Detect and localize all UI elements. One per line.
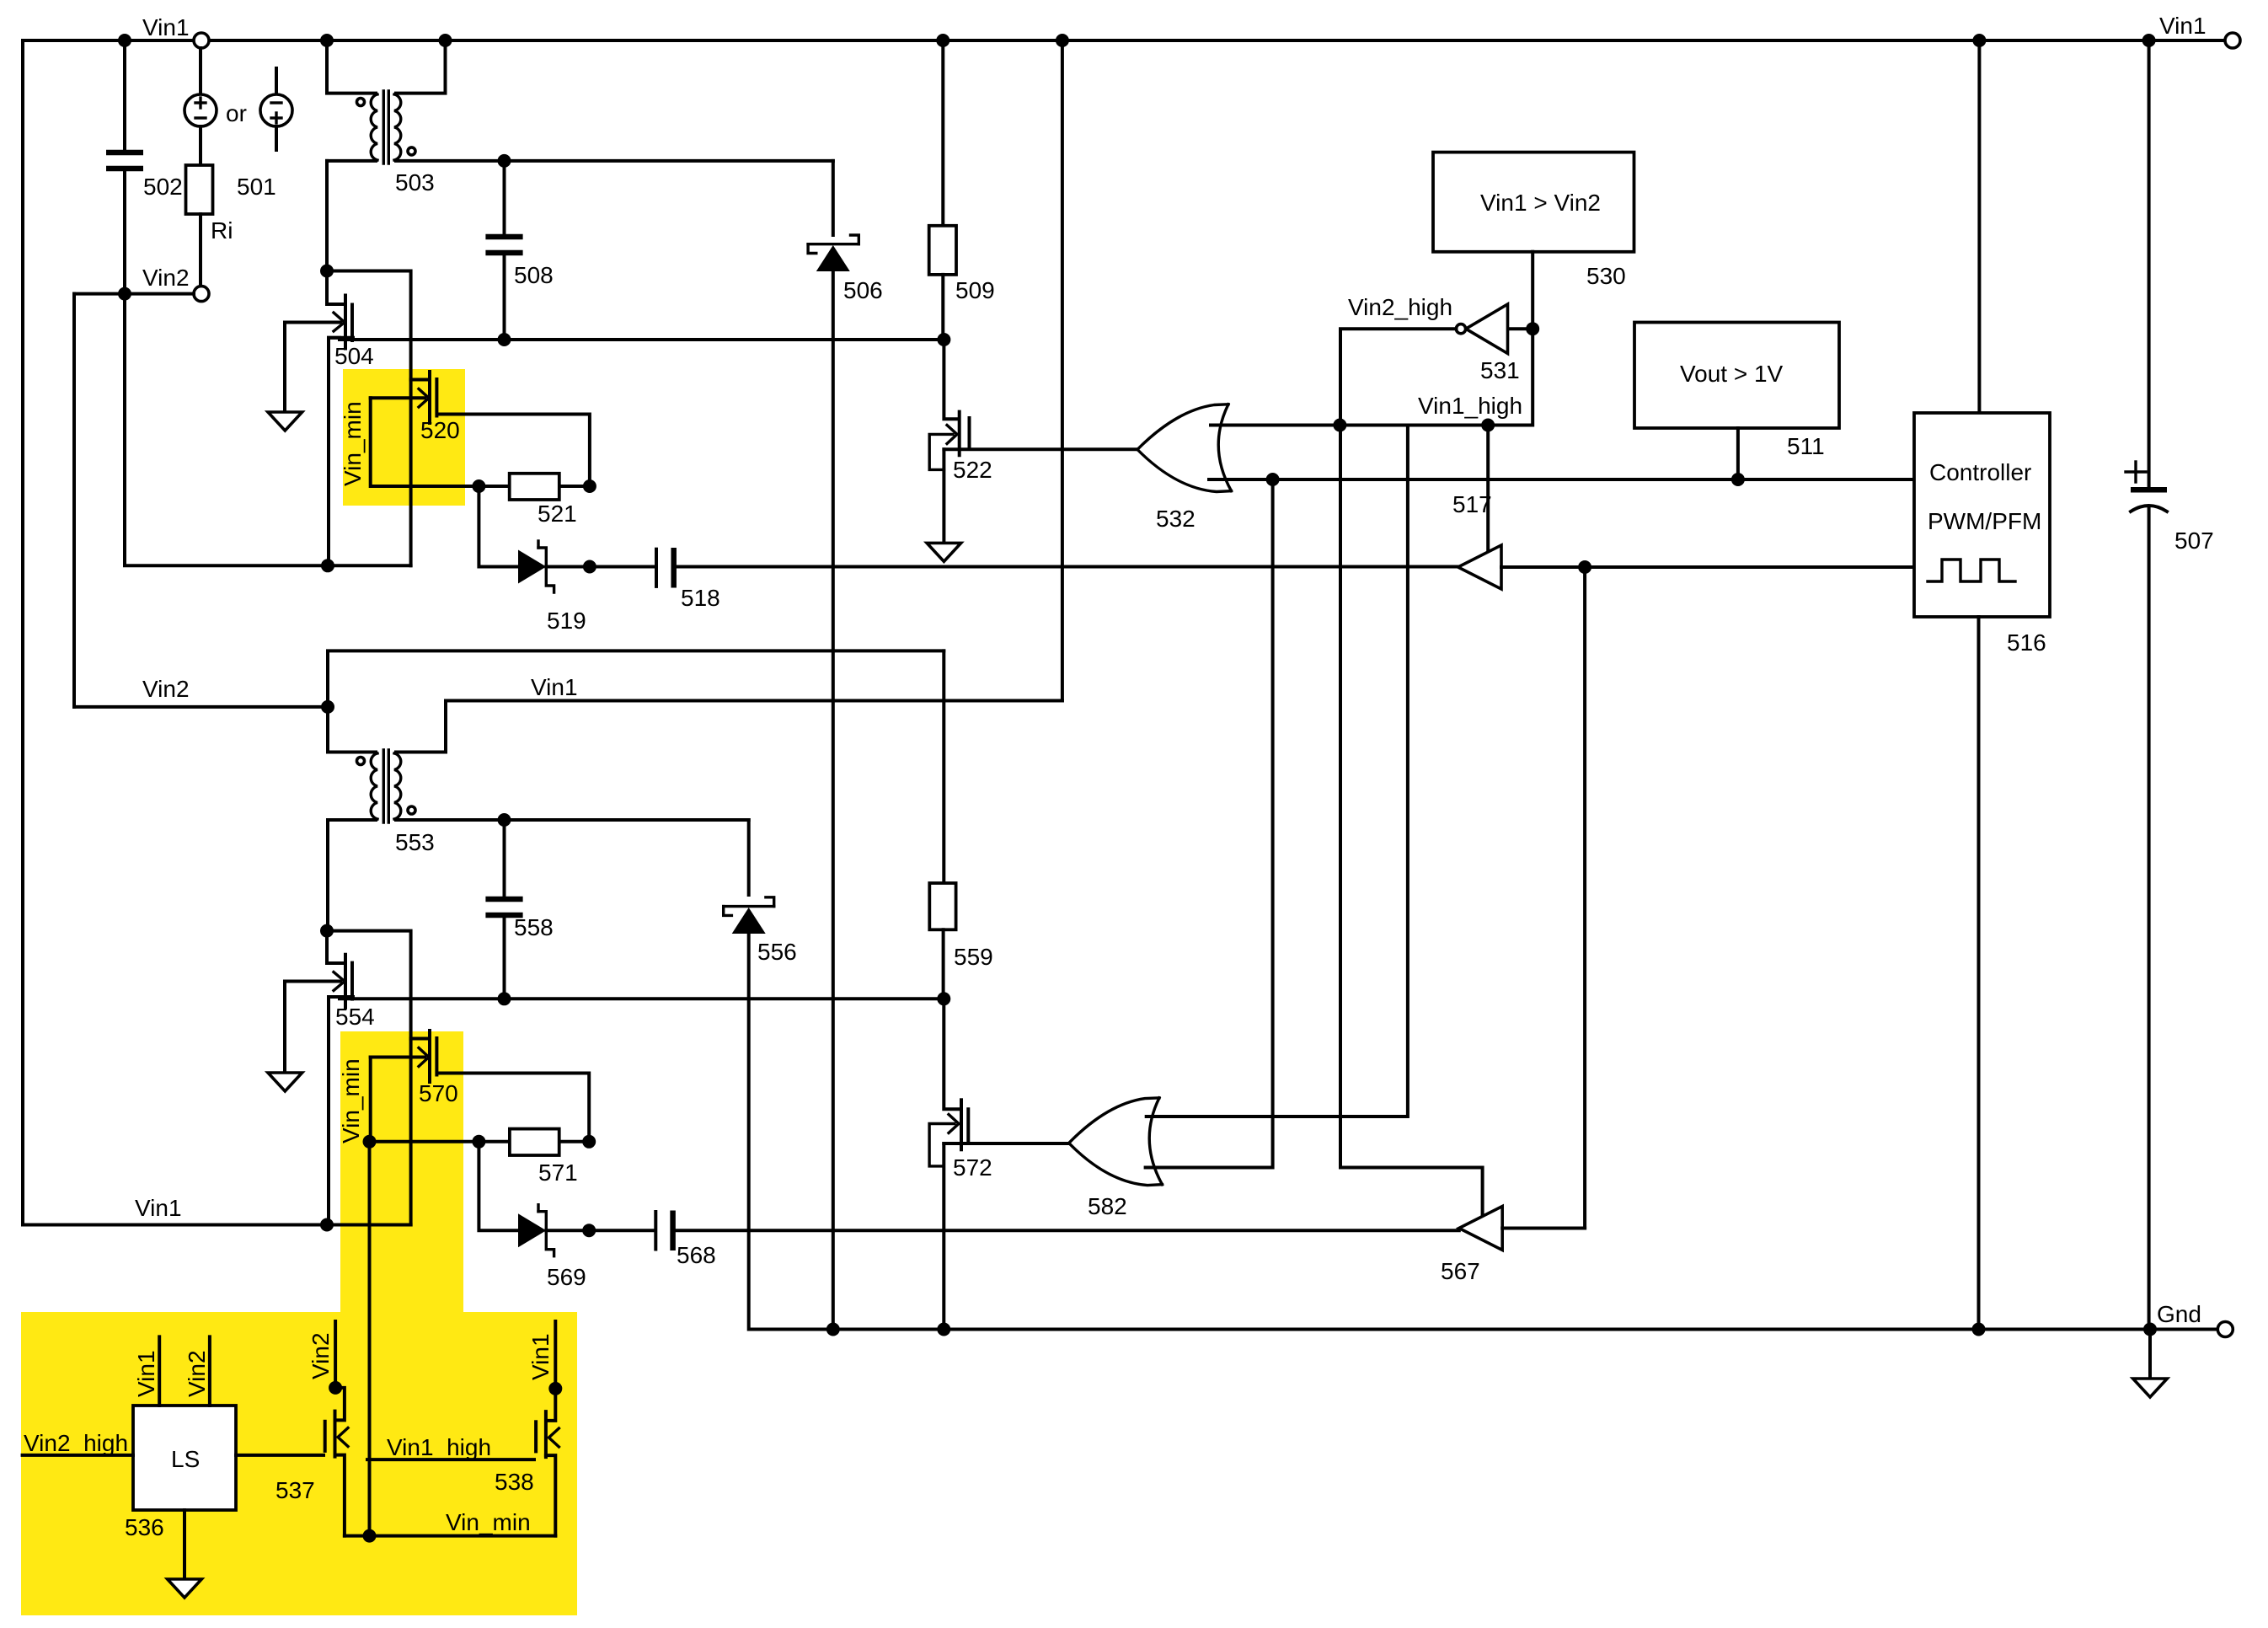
wire: 554 source long horizontal to 572 column (329, 997, 944, 999)
wire: Vin1_high vertical down to OR 582 upper input (1147, 426, 1408, 1117)
svg-text:519: 519 (547, 608, 586, 634)
wire: top Vin1 rail (23, 39, 194, 42)
comparator box 530 Vin1 > Vin2 (1433, 153, 1634, 252)
junction at Vin2 node (118, 287, 131, 301)
svg-text:Vin1_high: Vin1_high (387, 1434, 491, 1460)
wire: 522 node to OR 532 output (944, 447, 1137, 451)
svg-text:Vin1: Vin1 (2159, 13, 2206, 39)
svg-text:569: 569 (547, 1264, 586, 1290)
transformer 503 (327, 40, 376, 94)
wire: 570 source to right column (437, 1074, 589, 1142)
wire: Vin2 node up and over to resistor 559 column (328, 651, 944, 707)
junction 537 drain (329, 1381, 342, 1395)
wire: 530 bottom pin (1531, 252, 1534, 329)
voltage source 501 (left) (199, 48, 202, 94)
svg-text:Vin_min: Vin_min (338, 1058, 364, 1143)
zener diode 556 (747, 820, 751, 895)
svg-text:521: 521 (538, 501, 577, 527)
wire: 538 gate Vin1_high (367, 1458, 534, 1461)
wire: 1510 vertical down to OR 582 lower input (1146, 479, 1273, 1168)
wire: left edge vertical from Vin1 rail down to bottom Vin1 line (21, 40, 24, 1225)
wire: LS ground pin (183, 1510, 186, 1579)
capacitor 518 (655, 549, 658, 586)
wire: Vin2_high input to LS (23, 1454, 133, 1457)
junction Vout comparator line / vertical 1510 (1266, 473, 1280, 486)
transistor 554 (327, 931, 345, 963)
junction 511 pin on line (1731, 473, 1745, 486)
highlight block around LS level shifter 536/537/538 (21, 1312, 577, 1615)
junction on bottom Vin1 rail (554 source) (320, 1218, 334, 1232)
resistor 521 (510, 474, 559, 500)
svg-text:Vin_min: Vin_min (340, 401, 366, 486)
svg-text:LS: LS (171, 1446, 200, 1472)
junction cap 558 bottom on 554-source line (498, 992, 511, 1005)
junction 570 gate node (363, 1135, 377, 1149)
svg-text:516: 516 (2007, 629, 2046, 656)
inverter 531 (1508, 327, 1526, 330)
OR gate 532 (1137, 404, 1228, 450)
junction on lower rail (504 source) (321, 559, 334, 572)
svg-text:536: 536 (125, 1514, 164, 1540)
svg-text:Vin2_high: Vin2_high (1348, 294, 1452, 320)
diode 519 (zener) (518, 550, 546, 584)
svg-text:504: 504 (334, 343, 374, 369)
inverter 567 (1459, 1207, 1502, 1250)
wire: x=148 down to lower rail (125, 294, 411, 566)
wire: 519 cathode to cap 518 (546, 565, 655, 569)
wire: 504 source long horizontal to 522 column (329, 338, 944, 340)
junction diode/571 right column (582, 1224, 596, 1237)
junction diode/521 right column (583, 560, 596, 574)
transformer 553 (328, 707, 376, 752)
wire: 556 anode down to Gnd rail corner (747, 934, 752, 1330)
svg-text:517: 517 (1452, 491, 1492, 517)
junction cap 508 bottom on 504-source line (498, 333, 511, 346)
wire: 517 junction down to inverter 567 input (1502, 567, 1585, 1229)
svg-text:Controller: Controller (1929, 459, 2031, 485)
svg-text:568: 568 (677, 1242, 716, 1268)
wire: 538 drain from Vin1 stub (554, 1321, 557, 1389)
capacitor 568 (654, 1212, 657, 1250)
svg-text:554: 554 (335, 1004, 375, 1030)
svg-text:532: 532 (1156, 506, 1196, 532)
wire: 572 source down to Gnd rail (942, 1143, 945, 1330)
junction Gnd rail controller (1972, 1323, 1986, 1336)
junction 517 input line (1578, 560, 1591, 574)
wire: Vin1 mid horizontal (553 secondary top) (446, 699, 1062, 703)
transistor 522 (944, 340, 958, 419)
junction cap 508 top (498, 154, 511, 168)
ground at 554 gate (283, 982, 286, 1074)
zener diode 506 (808, 243, 859, 245)
highlight region around transistor 520 (343, 369, 465, 506)
terminal Vin1 top-left (194, 33, 209, 48)
svg-text:567: 567 (1441, 1258, 1480, 1284)
transistor 538 (547, 1389, 555, 1421)
wire Vin2 node horizontal (74, 292, 194, 296)
inverter 517 (1458, 545, 1501, 589)
wire: 559 column down across Vin1 line (942, 651, 945, 883)
junction 571 left (472, 1135, 485, 1149)
comparator box 511 Vout > 1V (1634, 323, 1839, 429)
junction 530 pin / 531 input (1526, 322, 1539, 335)
junction 559 bottom / 572 drain / 554 source line (937, 992, 950, 1005)
wire: Vin1 mid feed vertical (1061, 40, 1064, 701)
junction 538 drain (548, 1382, 562, 1395)
wire: 538 source down to Vin_min line (546, 1455, 555, 1536)
svg-text:503: 503 (395, 169, 435, 195)
svg-text:Vin1: Vin1 (135, 1195, 182, 1221)
junction Vin_min / 570 gate column (363, 1529, 377, 1543)
svg-text:Vin2: Vin2 (308, 1332, 334, 1379)
junction Vin2 / transformer 553 primary (321, 700, 334, 714)
transistor 520 (411, 378, 429, 382)
svg-text:553: 553 (395, 829, 435, 855)
junction 521 right (583, 479, 596, 493)
svg-text:570: 570 (419, 1080, 458, 1106)
wire: 572 node to OR 582 output (944, 1142, 1068, 1145)
wire: Vin2 down left branch (72, 294, 76, 707)
wire: 508 line right end down to zener 506 (832, 161, 835, 235)
wire: 511 bottom pin (1736, 428, 1740, 479)
svg-text:556: 556 (757, 939, 797, 965)
resistor Ri (199, 126, 202, 165)
svg-text:Vin1_high: Vin1_high (1418, 393, 1522, 419)
capacitor 507 (polarized) (2148, 40, 2151, 488)
svg-text:530: 530 (1586, 263, 1626, 289)
junction Gnd rail zener 556 (826, 1323, 840, 1336)
svg-text:582: 582 (1088, 1193, 1127, 1219)
wire: 517 line to controller (1585, 565, 1914, 569)
wire: LS Vin2 input pin (208, 1336, 211, 1406)
junction top rail cap 507 (2142, 34, 2156, 47)
wire: LS Vin1 input pin (158, 1336, 161, 1406)
junction Vin1_high tap (1481, 419, 1495, 432)
svg-text:537: 537 (275, 1477, 315, 1503)
wire: 522 source down to ground (942, 449, 945, 543)
Gnd rail (749, 1328, 2217, 1331)
junction Gnd rail 572 source (937, 1323, 950, 1336)
svg-text:Vin2_high: Vin2_high (24, 1430, 128, 1456)
ground at 504 gate (283, 323, 286, 413)
wire: 569 cathode to cap 568 (546, 1229, 654, 1232)
svg-text:520: 520 (420, 417, 460, 443)
wire: Vin2_high vertical down to bottom section (1340, 426, 1483, 1218)
svg-text:511: 511 (1787, 433, 1825, 459)
svg-text:Vin1 > Vin2: Vin1 > Vin2 (1480, 190, 1601, 216)
svg-text:Gnd: Gnd (2157, 1301, 2201, 1327)
wire: 506 anode down to Gnd rail (832, 271, 835, 1330)
resistor 509 (941, 40, 944, 226)
junction 571 right (582, 1135, 596, 1149)
junction 554 drain node (320, 924, 334, 938)
junction top rail controller pin (1972, 34, 1986, 47)
wire: 554 source to long line (329, 997, 353, 1225)
junction Gnd rail cap 507 (2143, 1323, 2157, 1336)
wire: 554 drain node to 570 drain column (327, 931, 411, 1225)
svg-text:Vin1: Vin1 (133, 1350, 159, 1397)
capacitor 502 (123, 40, 126, 151)
diode 569 (zener) (518, 1213, 546, 1247)
junction top rail for Vin1 mid feed (1056, 34, 1069, 47)
controller box 516 (1914, 413, 2050, 617)
svg-text:501: 501 (237, 174, 276, 200)
svg-text:Vin1: Vin1 (531, 674, 578, 700)
svg-text:522: 522 (953, 457, 992, 483)
transistor 572 (944, 999, 960, 1109)
svg-text:507: 507 (2174, 527, 2214, 554)
wire: Vin2 mid horizontal (74, 705, 328, 709)
ground symbol at Gnd rail (2148, 1330, 2152, 1379)
ground at LS (168, 1579, 202, 1598)
svg-text:558: 558 (514, 914, 554, 940)
OR gate 582 (1069, 1098, 1159, 1143)
wire: 570 gate down to 571 line and Vin_min (371, 1058, 590, 1142)
junction cap 558 top (498, 813, 511, 827)
LS level shifter box 536 (133, 1406, 236, 1510)
wire: 521 left node down to diode 519 anode (479, 486, 518, 567)
svg-text:Vin_min: Vin_min (446, 1509, 531, 1535)
svg-text:Vin2: Vin2 (142, 265, 190, 291)
svg-text:559: 559 (954, 944, 993, 970)
wire: Vin1_high drop to inverter 517 (1486, 426, 1490, 553)
svg-text:572: 572 (953, 1154, 992, 1181)
wire: 571 left node down to diode 569 anode (479, 1142, 518, 1230)
resistor 571 (510, 1129, 559, 1155)
wire: 537 source down to Vin_min line (335, 1455, 345, 1536)
svg-text:Vin2: Vin2 (184, 1350, 210, 1397)
svg-text:531: 531 (1480, 357, 1520, 383)
svg-text:or: or (226, 100, 247, 126)
transistor 504 (327, 271, 345, 305)
voltage source 501 (right alternative) (275, 68, 278, 94)
terminal Vin1 top-right (2225, 33, 2240, 48)
capacitor 508 (503, 161, 506, 235)
wire: 520 source to right column (437, 415, 590, 487)
transistor 570 (411, 1037, 429, 1041)
highlight strip around transistor 570 (340, 1031, 463, 1318)
wire: 504 source to long line (329, 338, 353, 566)
junction Vin2_high tap (1333, 419, 1346, 432)
wire: cap 518 to inverter 517 (675, 565, 1458, 569)
terminal Vin2 (194, 287, 209, 302)
junction 509 bottom / 522 drain / 504 source line (937, 333, 950, 346)
junction top rail x=388 (transformer 503 primary) (320, 34, 334, 47)
svg-text:571: 571 (538, 1159, 578, 1186)
wire: bottom-left Vin1 line (23, 1224, 411, 1227)
wire: drain node to 520 drain column (327, 271, 411, 566)
ground at 522 source (927, 543, 961, 561)
wire: 537 drain from Vin2 stub (334, 1321, 337, 1388)
waveform inside controller 516 (1928, 560, 2015, 581)
svg-text:509: 509 (955, 277, 995, 303)
svg-text:506: 506 (843, 277, 883, 303)
wire: 531 output Vin2_high (1340, 329, 1456, 425)
svg-text:Vout > 1V: Vout > 1V (1680, 361, 1784, 387)
svg-text:Vin1: Vin1 (527, 1333, 554, 1380)
wire: Vin_min line (345, 1534, 555, 1538)
wire: cap 568 to inverter 567 (674, 1229, 1459, 1232)
junction on top rail at x=148 (118, 34, 131, 47)
junction 504 drain node (320, 265, 334, 278)
svg-text:538: 538 (495, 1469, 534, 1495)
wire: OR 532 upper input bus (Vin2_high / Vin1_high) (1211, 329, 1533, 425)
svg-text:Vin2: Vin2 (142, 676, 190, 702)
junction top rail for 509 (936, 34, 949, 47)
wire: 520 gate down and to resistor 521 (371, 398, 590, 486)
wire: LS output to 537 gate (236, 1454, 324, 1457)
wire: controller top pin (1977, 40, 1981, 413)
wire: controller bottom pin to Gnd rail (1977, 617, 1981, 1330)
svg-text:518: 518 (681, 585, 720, 611)
svg-text:Vin1: Vin1 (142, 14, 190, 40)
svg-text:508: 508 (514, 262, 554, 288)
capacitor 558 (503, 820, 506, 897)
svg-text:502: 502 (143, 174, 183, 200)
transistor 537 (335, 1388, 345, 1421)
svg-text:Ri: Ri (211, 217, 233, 244)
terminal Gnd (2217, 1322, 2233, 1337)
resistor 559 (929, 883, 955, 929)
junction 520 gate / 521 left (472, 479, 485, 493)
junction top rail x=528.5 (transformer 503 secondary) (439, 34, 452, 47)
svg-text:PWM/PFM: PWM/PFM (1928, 508, 2041, 534)
wire: OR 532 lower input line to controller (1209, 478, 1914, 481)
